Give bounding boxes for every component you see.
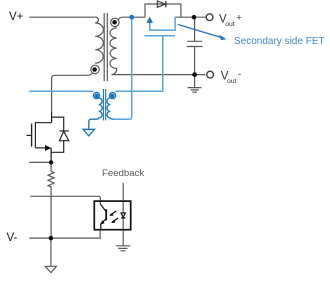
svg-text:out: out bbox=[227, 78, 237, 85]
svg-text:+: + bbox=[236, 13, 242, 24]
svg-text:Secondary side FET: Secondary side FET bbox=[234, 36, 325, 47]
svg-text:V+: V+ bbox=[9, 11, 24, 23]
svg-text:V-: V- bbox=[7, 232, 18, 244]
svg-text:-: - bbox=[238, 69, 241, 80]
svg-text:Feedback: Feedback bbox=[102, 168, 144, 179]
svg-text:out: out bbox=[225, 21, 235, 28]
